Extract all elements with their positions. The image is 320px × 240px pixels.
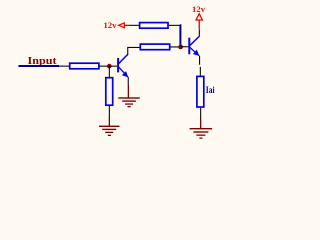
resistor R4 right pin — [170, 46, 178, 47]
wire node B to Q2 base — [181, 46, 189, 47]
transistor Q2 emitter pin — [199, 56, 200, 65]
resistor R1 left pin — [59, 66, 69, 67]
transistor Q1 — [118, 54, 128, 77]
resistor R2 bottom pin — [109, 106, 110, 117]
resistor R5 bottom pin — [200, 108, 201, 119]
power port 12v top (VCC2) arrow — [196, 14, 202, 30]
transistor Q1 collector wire to R4 — [127, 47, 140, 48]
ground under R2 — [99, 117, 120, 137]
net label Input — [28, 56, 58, 67]
power port 12v left (VCC1) label — [104, 20, 118, 30]
junction dot node B — [178, 45, 183, 50]
resistor R3 left pin — [129, 25, 139, 26]
svg-text:12v: 12v — [192, 4, 206, 14]
wire R3 to node B — [179, 25, 182, 45]
transistor Q1 emitter pin — [128, 77, 129, 85]
resistor R3 right pin — [169, 25, 180, 26]
svg-text:Iai: Iai — [206, 86, 215, 96]
resistor R2 — [106, 78, 113, 106]
resistor R2 top pin (from node A) — [109, 66, 110, 77]
resistor R3 — [140, 23, 168, 29]
wire input net — [19, 65, 60, 67]
resistor R1 right pin — [100, 66, 110, 67]
label Iai (R5 current label) — [206, 86, 215, 96]
svg-text:12v: 12v — [104, 20, 118, 30]
transistor Q1 collector pin — [127, 47, 128, 55]
transistor Q2 collector pin — [199, 30, 200, 37]
resistor R5 — [197, 76, 204, 107]
resistor R5 top pin — [200, 67, 201, 76]
transistor Q2 — [189, 36, 199, 56]
resistor R4 — [140, 44, 169, 50]
power port 12v left (VCC1) arrow — [119, 23, 129, 28]
ground under Q1 emitter — [118, 85, 140, 108]
resistor R1 — [70, 63, 99, 69]
ground under R5 — [190, 118, 213, 138]
wire node A to Q1 base — [109, 66, 117, 67]
junction dot node A — [107, 64, 112, 69]
power port 12v top (VCC2) label — [192, 4, 206, 14]
